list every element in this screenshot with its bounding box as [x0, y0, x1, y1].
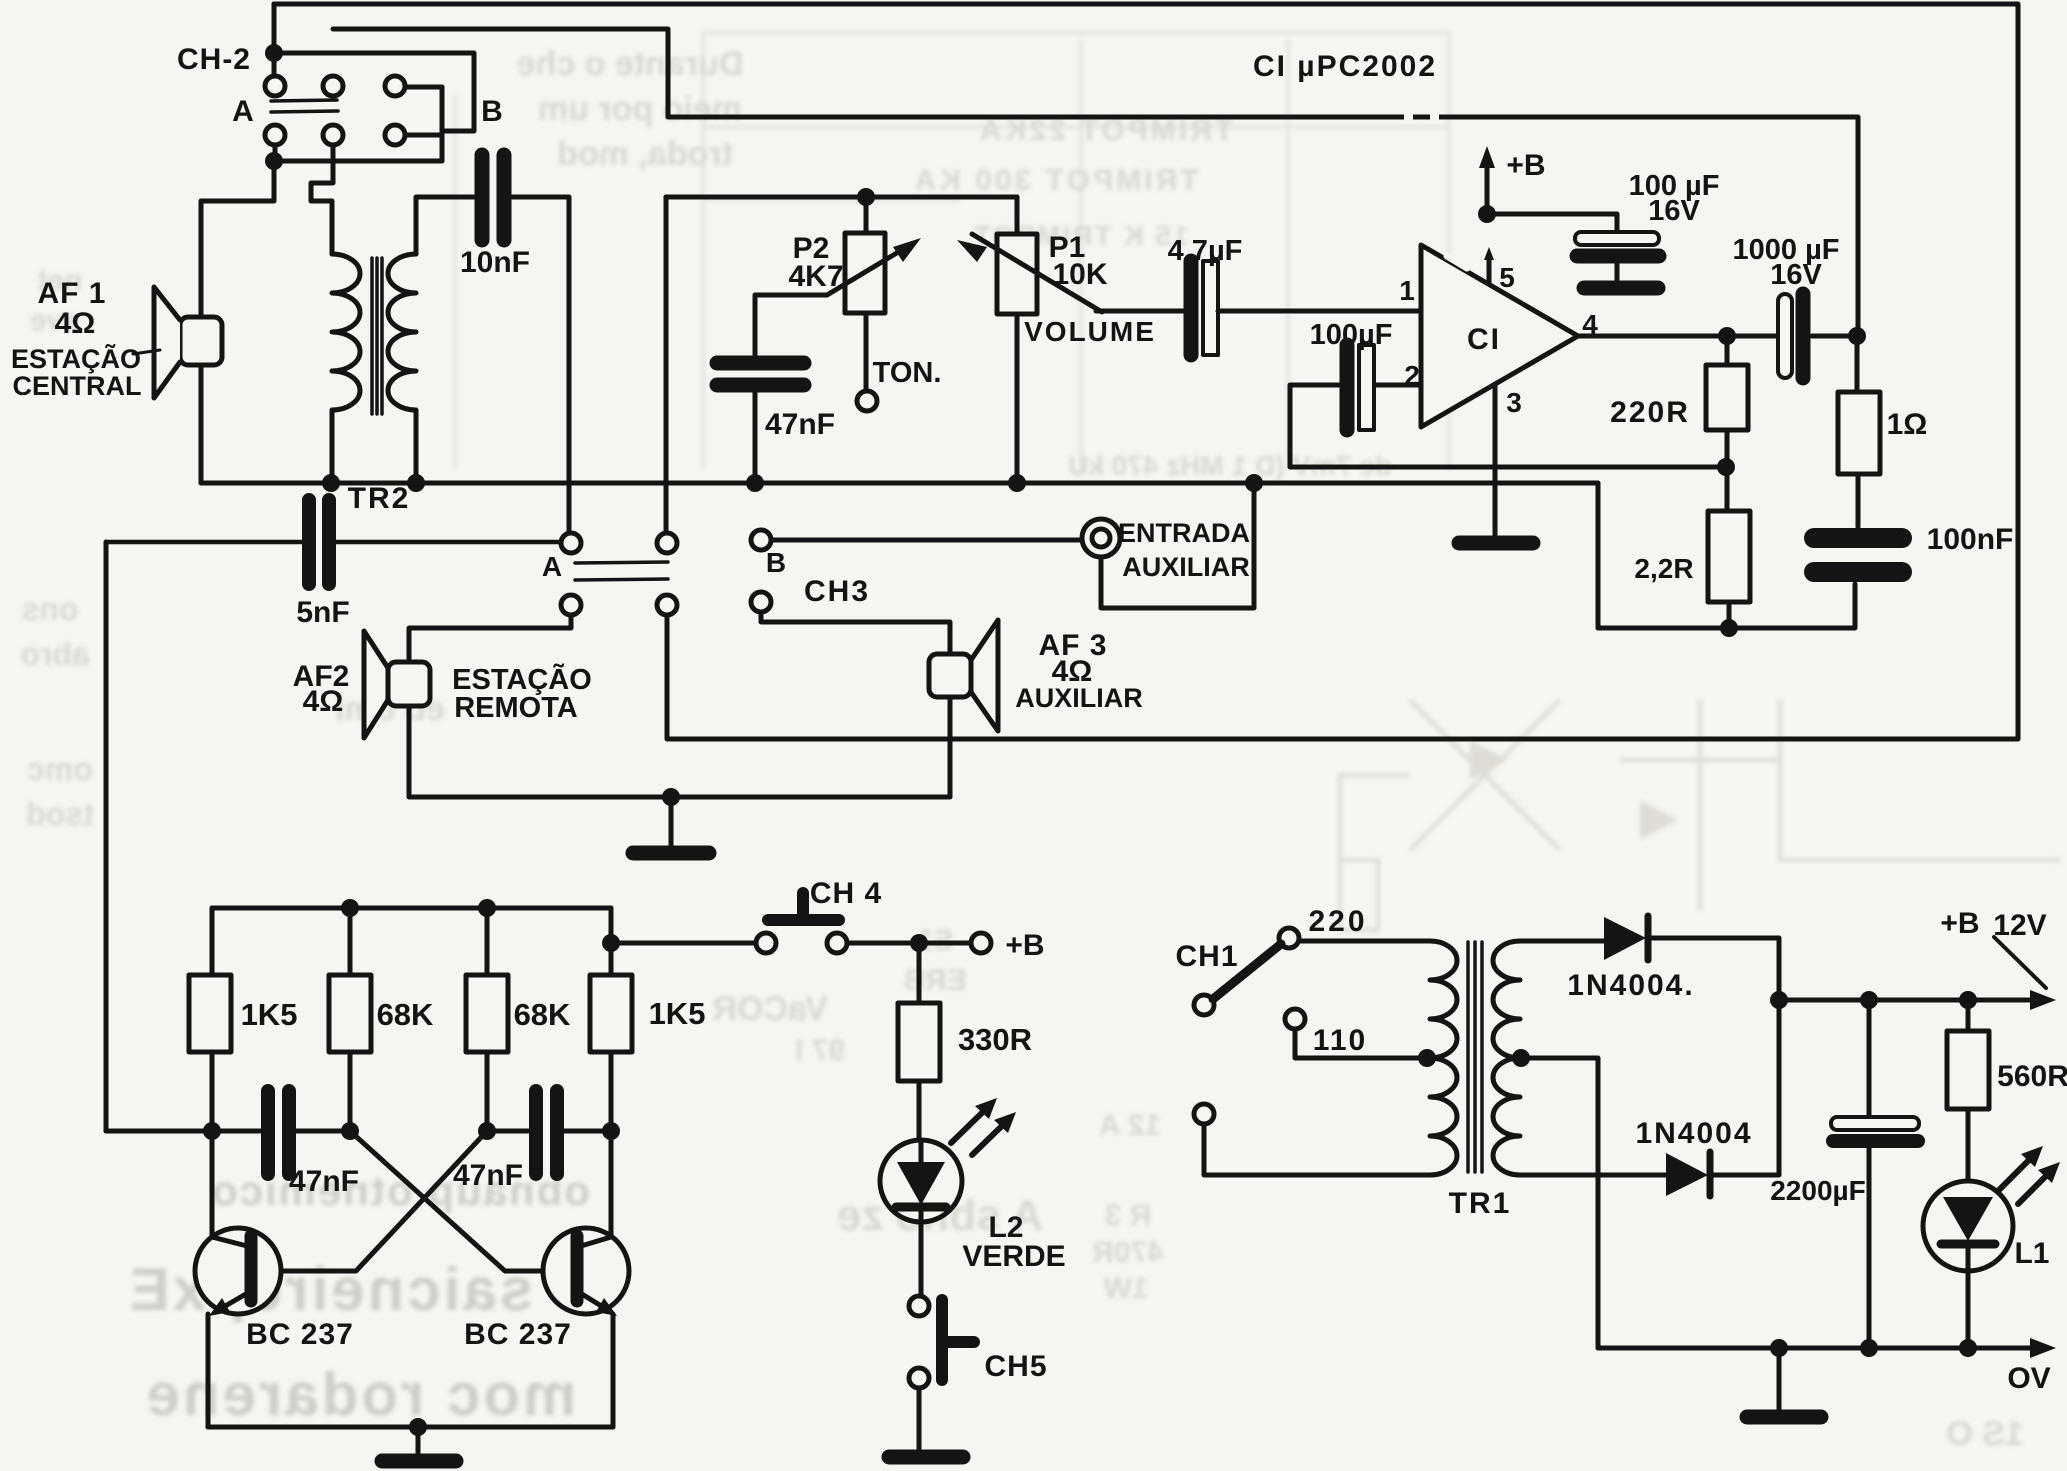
- transformer TR1: [1430, 941, 1520, 1175]
- switch CH3 B contacts: [751, 530, 771, 612]
- svg-text:3: 3: [1506, 387, 1522, 418]
- svg-text:16V: 16V: [1648, 195, 1700, 227]
- wire CH2 right contacts stubs: [405, 87, 442, 135]
- node dot AF2 ground junction: [662, 788, 680, 806]
- svg-text:AF 1: AF 1: [37, 277, 106, 310]
- svg-text:VOLUME: VOLUME: [1024, 316, 1156, 347]
- node dot 560R top: [1959, 991, 1977, 1009]
- svg-text:TR1: TR1: [1449, 1187, 1512, 1220]
- node dot 0V L1: [1959, 1339, 1977, 1357]
- svg-text:CENTRAL: CENTRAL: [13, 371, 142, 401]
- transistor Q1 BC237: [195, 1131, 281, 1427]
- svg-text:47nF: 47nF: [289, 1165, 359, 1198]
- terminal TON: [857, 391, 877, 411]
- ground below 100uF: [1584, 281, 1658, 296]
- svg-text:4K7: 4K7: [788, 260, 843, 293]
- switch CH5 pushbutton: [909, 1296, 974, 1388]
- speaker AF3: [929, 620, 998, 731]
- capacitor 4,7uF: [1191, 261, 1218, 355]
- svg-text:VERDE: VERDE: [962, 1240, 1065, 1273]
- svg-text:47nF: 47nF: [453, 1159, 523, 1192]
- node dot +B junction: [1770, 991, 1788, 1009]
- svg-text:CH3: CH3: [804, 575, 870, 608]
- diode D2 1N4004: [1666, 1152, 1710, 1196]
- wire multivib to CH4: [611, 941, 756, 946]
- svg-text:A: A: [542, 551, 562, 582]
- node dot jack shield on bus: [1245, 474, 1263, 492]
- node dot 220R bottom: [1717, 458, 1735, 476]
- svg-text:97 I: 97 I: [795, 1034, 845, 1067]
- svg-text:470R: 470R: [1092, 1236, 1164, 1269]
- svg-text:R 3: R 3: [1105, 1199, 1152, 1232]
- svg-text:saicneirepxE: saicneirepxE: [127, 1256, 533, 1323]
- svg-text:TON.: TON.: [873, 357, 942, 389]
- svg-text:16V: 16V: [1770, 259, 1822, 291]
- node dot emitter rail ground: [409, 1418, 427, 1436]
- wire 47nF to bus: [753, 392, 758, 483]
- wire 10nF branch: [416, 197, 569, 533]
- ground below AF2: [633, 797, 709, 853]
- wire AF2 loop: [409, 612, 950, 797]
- node dot pot rail: [857, 188, 875, 206]
- node dot 330R branch: [910, 934, 928, 952]
- node dot CH4 branch: [602, 934, 620, 952]
- resistor 220R: [1706, 336, 1748, 467]
- capacitor 100uF 16V decoupling: [1575, 232, 1659, 281]
- resistor 1K5 right: [590, 908, 632, 1131]
- svg-text:OV: OV: [2007, 1362, 2050, 1395]
- svg-text:1: 1: [1399, 275, 1415, 306]
- svg-text:troda, mod: troda, mod: [557, 135, 733, 173]
- svg-text:2: 2: [1404, 360, 1420, 391]
- svg-text:1S O: 1S O: [1946, 1415, 2023, 1453]
- led L1: [1923, 1146, 2060, 1348]
- wire 0V rail: [1598, 1346, 2042, 1351]
- svg-text:REMOTA: REMOTA: [454, 692, 578, 724]
- resistor 1 ohm: [1838, 336, 1880, 527]
- capacitor 100uF input: [1347, 345, 1374, 430]
- resistor 1K5 left: [189, 908, 231, 1131]
- terminal +B mid: [971, 933, 991, 953]
- wire pot section top rail: [666, 195, 1017, 200]
- node dot output to 220R: [1718, 327, 1736, 345]
- node dot secondary tap: [1512, 1049, 1530, 1067]
- svg-text:B: B: [766, 547, 786, 578]
- node dot base node right: [478, 1122, 496, 1140]
- svg-text:1W: 1W: [1103, 1272, 1149, 1305]
- wire pin 3 to ground: [1493, 384, 1498, 535]
- svg-text:B: B: [481, 95, 503, 128]
- switch CH1: [1194, 928, 1299, 1015]
- node dot 1K5L collector join: [203, 1122, 221, 1140]
- svg-text:TRIMPOT 300 KA: TRIMPOT 300 KA: [911, 164, 1198, 197]
- arrow 0V rail: [2030, 1338, 2056, 1358]
- node dot zobel bottom: [1720, 619, 1738, 637]
- wire pointer from label to AF1: [133, 350, 160, 354]
- wire left rail from 5nF down to multivibrator: [104, 542, 109, 1131]
- label 100uF 16V: [1629, 170, 1720, 227]
- node dot 0V 2200uF: [1860, 1339, 1878, 1357]
- svg-text:100nF: 100nF: [1927, 523, 2014, 556]
- label AF2: [293, 660, 592, 724]
- svg-text:BC 237: BC 237: [464, 1318, 572, 1351]
- wire CH2 bottom row bus: [274, 159, 442, 164]
- capacitor 1000uF 16V: [1778, 294, 1803, 378]
- svg-text:+B: +B: [1940, 907, 1979, 940]
- switch CH4 pushbutton: [756, 893, 847, 953]
- svg-text:1Ω: 1Ω: [1887, 408, 1928, 441]
- potentiometer P1: [957, 197, 1102, 483]
- svg-text:ons: ons: [22, 591, 79, 627]
- connector ENTRADA AUXILIAR jack: [1082, 519, 1120, 557]
- capacitor 2200uF: [1831, 1000, 1919, 1348]
- node dot collector node right: [602, 1122, 620, 1140]
- svg-text:12V: 12V: [1993, 909, 2046, 942]
- wire 47nF left to base node: [296, 1129, 350, 1134]
- label +B 12V with pointer: [1940, 907, 2046, 942]
- arrow +B rail: [2030, 990, 2056, 1010]
- wire cross coupling left base: [259, 1131, 487, 1271]
- node dot output to 1ohm: [1848, 327, 1866, 345]
- wire CH3 right pole vertical from P-section: [664, 197, 669, 533]
- svg-text:ESTAÇÃO: ESTAÇÃO: [11, 343, 141, 374]
- svg-text:4Ω: 4Ω: [303, 685, 344, 718]
- capacitor 47nF right: [536, 1091, 557, 1174]
- svg-text:ERB: ERB: [903, 964, 966, 997]
- capacitor 47nF tone: [717, 363, 804, 385]
- svg-text:5nF: 5nF: [296, 596, 349, 629]
- wire second top run from CH2 middle to CI box level: [333, 29, 1858, 336]
- svg-text:4: 4: [1582, 309, 1598, 340]
- wire D2 to +B node: [1712, 1000, 1779, 1175]
- wire emitter bottom rail: [208, 1425, 613, 1430]
- switch CH3 A contacts: [561, 533, 677, 615]
- wire multivibrator top rail: [212, 906, 611, 911]
- svg-text:1K5: 1K5: [241, 997, 298, 1032]
- transformer TR2: [332, 254, 416, 483]
- terminal mains common: [1194, 1104, 1214, 1124]
- wire zobel bottom run: [1598, 584, 1855, 628]
- potentiometer P2: [827, 197, 921, 392]
- terminal 110: [1285, 1009, 1305, 1029]
- svg-text:110: 110: [1313, 1024, 1367, 1057]
- op-amp CI uPC2002: [1421, 245, 1578, 427]
- resistor 2,2R: [1708, 467, 1750, 628]
- wire 47nF right connections: [487, 1129, 611, 1134]
- switch CH-2 terminals: [265, 76, 285, 96]
- node dot TR2 right on bus: [407, 474, 425, 492]
- svg-text:AUXILIAR: AUXILIAR: [1015, 683, 1143, 713]
- wire P1 wiper output to 4.7uF: [1096, 309, 1183, 314]
- node dot TR2 left on bus: [322, 474, 340, 492]
- svg-text:4,7µF: 4,7µF: [1168, 235, 1243, 267]
- svg-text:BC 237: BC 237: [246, 1318, 354, 1351]
- svg-text:CI µPC2002: CI µPC2002: [1253, 50, 1437, 83]
- resistor 560R: [1947, 1000, 1989, 1184]
- capacitor 5nF: [106, 500, 561, 584]
- svg-text:5: 5: [1499, 262, 1515, 293]
- svg-text:Durante o che: Durante o che: [517, 45, 744, 83]
- wire L2 to CH5: [919, 1222, 924, 1296]
- label AF1 value: [11, 277, 142, 401]
- svg-text:1N4004.: 1N4004.: [1567, 969, 1694, 1002]
- svg-text:L1: L1: [2014, 1237, 2049, 1270]
- svg-text:68K: 68K: [514, 997, 571, 1032]
- svg-text:220R: 220R: [1610, 396, 1690, 429]
- wire CI output pin 4: [1578, 334, 1857, 339]
- resistor 68K left: [329, 908, 371, 1131]
- svg-text:omc: omc: [27, 751, 93, 787]
- wire top frame from CH2 to right edge: [274, 4, 2018, 739]
- wire left feed into 47nF left: [106, 1129, 260, 1134]
- diode D1 1N4004: [1604, 916, 1648, 960]
- svg-text:+B: +B: [1005, 929, 1044, 962]
- svg-text:2,2R: 2,2R: [1634, 553, 1693, 584]
- label AF3: [1015, 629, 1143, 713]
- wire CH2 A-pole down to AF1 loop: [201, 145, 275, 483]
- node dot rail 68K left: [341, 899, 359, 917]
- wire entrada jack shield loop to bus: [1101, 483, 1254, 608]
- svg-text:VaCOR: VaCOR: [712, 990, 827, 1028]
- svg-text:ENTRADA: ENTRADA: [1118, 518, 1250, 548]
- capacitor 47nF left: [268, 1091, 289, 1174]
- wire 100uF loop to 220R bottom: [1290, 385, 1726, 467]
- capacitor 10nF: [482, 155, 504, 240]
- power +B arrow above CI: [1478, 146, 1617, 232]
- node dot 47nF bus: [746, 474, 764, 492]
- label ENTRADA AUXILIAR: [1118, 518, 1250, 582]
- ground PSU: [1747, 1348, 1821, 1417]
- wire P2 wiper to 47nF: [755, 295, 827, 356]
- svg-text:meio por um: meio por um: [538, 90, 742, 128]
- label L2 VERDE: [962, 1211, 1065, 1273]
- wire CH4 to +B terminal: [847, 941, 971, 946]
- svg-text:CH 4: CH 4: [810, 877, 882, 910]
- ground multivibrator: [382, 1427, 456, 1461]
- svg-text:tsod: tsod: [26, 796, 94, 832]
- wire 4.7uF to pin1: [1218, 309, 1421, 314]
- svg-text:47nF: 47nF: [765, 408, 835, 441]
- wire 110 tap: [1295, 1029, 1427, 1058]
- svg-text:CH-2: CH-2: [177, 43, 251, 76]
- wire CH2 middle pole jog down to TR2 primary: [311, 145, 333, 254]
- node dot 0V ground: [1770, 1339, 1788, 1357]
- wire TR1 secondary bottom to diode: [1520, 1173, 1666, 1178]
- wire pointer +B 12V: [1994, 937, 2046, 988]
- svg-text:2200µF: 2200µF: [1770, 1175, 1866, 1206]
- wire mains common to TR1 bottom: [1204, 1124, 1430, 1175]
- node dot CH2 top: [265, 44, 283, 62]
- svg-text:220: 220: [1308, 905, 1367, 938]
- wire CH3-B to entrada jack: [771, 538, 1083, 543]
- svg-text:330R: 330R: [958, 1022, 1032, 1057]
- wire +B rail: [1779, 998, 2042, 1003]
- wire TR1 secondary top to diode: [1520, 939, 1604, 944]
- wire CH5 to ground: [917, 1388, 922, 1450]
- label P1 10K: [1049, 231, 1108, 291]
- svg-text:68K: 68K: [377, 997, 434, 1032]
- svg-text:10nF: 10nF: [460, 246, 530, 279]
- node dot base node left: [341, 1122, 359, 1140]
- svg-text:100µF: 100µF: [1310, 319, 1393, 351]
- svg-text:AUXILIAR: AUXILIAR: [1122, 552, 1250, 582]
- label P2 4K7: [788, 232, 843, 293]
- capacitor 100nF: [1814, 538, 1902, 572]
- node dot 2200uF top: [1860, 991, 1878, 1009]
- wire TR1 secondary tap: [1521, 1058, 1598, 1348]
- svg-text:12 A: 12 A: [1099, 1109, 1161, 1142]
- wire pin 2: [1375, 383, 1421, 388]
- svg-text:+B: +B: [1506, 149, 1545, 182]
- svg-text:4Ω: 4Ω: [55, 307, 96, 340]
- resistor 68K right: [466, 908, 508, 1131]
- svg-text:1K5: 1K5: [649, 996, 706, 1031]
- ground pin 3: [1459, 536, 1533, 551]
- svg-text:CH1: CH1: [1175, 940, 1238, 973]
- speaker AF2: [364, 631, 430, 738]
- resistor 330R: [898, 943, 940, 1140]
- svg-text:A: A: [232, 95, 254, 128]
- wire main ground bus: [201, 483, 1598, 628]
- svg-text:CH5: CH5: [984, 1350, 1047, 1383]
- svg-text:TR2: TR2: [348, 482, 411, 515]
- svg-text:1N4004: 1N4004: [1635, 1117, 1752, 1150]
- svg-text:560R: 560R: [1997, 1060, 2067, 1093]
- transistor Q2 BC237: [543, 1131, 629, 1427]
- wire CH2 left pole vertical: [272, 4, 277, 76]
- svg-text:10K: 10K: [1052, 258, 1107, 291]
- label 1000uF 16V: [1733, 234, 1840, 291]
- node dot CH2 bottom: [265, 152, 283, 170]
- wire cross coupling right base: [350, 1131, 576, 1271]
- switch CH-2 coupling bars: [271, 100, 338, 112]
- svg-text:abro: abro: [20, 636, 89, 672]
- wire CH2 B bridge loop: [274, 53, 474, 161]
- svg-text:ESTAÇÃO: ESTAÇÃO: [452, 662, 592, 696]
- speaker AF1: [154, 287, 222, 398]
- wire D1 to +B node: [1650, 938, 1779, 1000]
- wire dash gaps on CI box top: [1404, 111, 1413, 123]
- ground below CH5: [889, 1450, 963, 1465]
- pin 5 stub with arrow: [1484, 247, 1494, 284]
- svg-text:CI: CI: [1467, 323, 1501, 356]
- node dot rail 68K right: [478, 899, 496, 917]
- node dot P1 bus: [1008, 474, 1026, 492]
- node dot 110 tap: [1418, 1049, 1436, 1067]
- led L2: [880, 1098, 1016, 1222]
- wire 220 input to TR1: [1299, 939, 1430, 944]
